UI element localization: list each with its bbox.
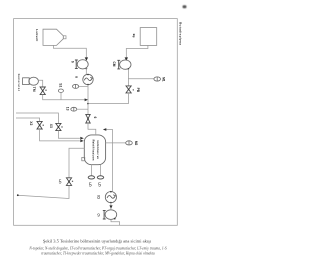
- svg-text:5: 5: [89, 182, 92, 188]
- svg-text:TM: TM: [32, 87, 36, 92]
- svg-text:CM: CM: [112, 62, 116, 67]
- svg-text:B: B: [75, 76, 79, 78]
- svg-text:X3: X3: [49, 124, 53, 128]
- svg-text:6: 6: [93, 117, 97, 119]
- svg-text:Bg: Bg: [132, 34, 136, 38]
- svg-text:Rektifikasiyon: Rektifikasiyon: [92, 140, 96, 161]
- svg-text:S1: S1: [58, 83, 62, 87]
- svg-text:M1: M1: [162, 77, 166, 82]
- svg-text:Şekil 3.5 Tesislerine bölmesin: Şekil 3.5 Tesislerine bölmesinin uyarlan…: [43, 238, 152, 243]
- svg-text:X2: X2: [29, 121, 33, 125]
- svg-text:traumatischer, TI-krepveder tr: traumatischer, TI-krepveder traumatischl…: [41, 251, 155, 256]
- svg-text:Generator: Generator: [17, 74, 21, 92]
- svg-text:13: 13: [66, 107, 70, 111]
- svg-text:5: 5: [59, 180, 62, 186]
- svg-text:kolonnasi ve: kolonnasi ve: [96, 140, 100, 159]
- svg-text:9: 9: [97, 213, 100, 219]
- svg-text:Lamvolt: Lamvolt: [35, 29, 39, 41]
- svg-text:PB: PB: [136, 88, 140, 93]
- svg-text:6: 6: [71, 61, 75, 63]
- svg-text:Butadieplyna: Butadieplyna: [178, 22, 182, 45]
- svg-text:M2: M2: [134, 141, 138, 146]
- svg-text:5: 5: [98, 182, 101, 188]
- svg-text:8: 8: [97, 195, 100, 201]
